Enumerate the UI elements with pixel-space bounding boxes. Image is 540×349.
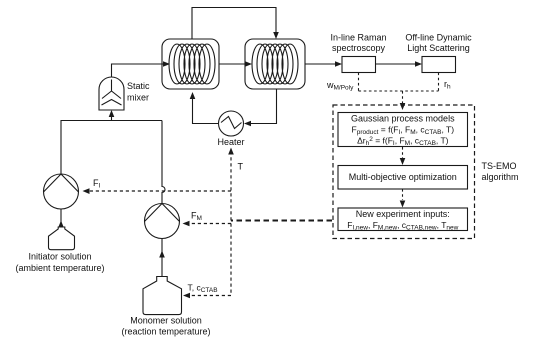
wire top bridge coil1 to coil2 [192, 8, 276, 40]
wire Raman to DLS [376, 63, 422, 65]
svg-text:(reaction temperature): (reaction temperature) [121, 327, 210, 337]
svg-text:algorithm: algorithm [482, 172, 519, 182]
feedback heavy dashed from NEI box [231, 220, 332, 222]
heater [219, 111, 244, 136]
coil reactor 1 [162, 39, 219, 89]
pump P2 [145, 204, 180, 239]
monomer vessel [143, 277, 182, 315]
wire mixer to coil1 [112, 64, 164, 77]
arrow into MO box [400, 158, 406, 165]
wire initiator vessel to pump1 [60, 209, 62, 227]
New experiment inputs box [338, 208, 468, 231]
feedback dashed to pump1 [89, 190, 231, 192]
svg-text:Heater: Heater [217, 137, 244, 147]
svg-text:Multi-objective optimization: Multi-objective optimization [349, 172, 457, 182]
dashed measurement drops [359, 73, 439, 104]
wire heater to coil1 bottom [193, 94, 219, 124]
arrow vessel1 to pump1 [58, 221, 64, 228]
wire pump2 up with hop [162, 121, 165, 204]
svg-text:spectroscopy: spectroscopy [332, 43, 386, 53]
wire coil2 bottom to heater [245, 89, 277, 124]
coil reactor 2 [245, 39, 305, 89]
wire junction to mixer [111, 112, 113, 121]
svg-text:(ambient temperature): (ambient temperature) [15, 263, 104, 273]
static mixer [99, 77, 124, 110]
svg-text:New experiment inputs:: New experiment inputs: [356, 209, 450, 219]
arrow into TS-EMO box [400, 103, 406, 110]
Multi-objective optimization box [338, 166, 468, 190]
arrow into heater right [244, 121, 251, 127]
feedback dashed to pump2 [189, 223, 231, 225]
initiator vessel [49, 227, 75, 250]
arrow into coil2 left [245, 61, 252, 67]
arrow into mixer bottom [109, 110, 115, 117]
svg-text:Initiator solution: Initiator solution [28, 252, 91, 262]
dashed arrow GP to MO [402, 147, 404, 158]
svg-text:Monomer solution: Monomer solution [130, 316, 202, 326]
Raman box [342, 57, 376, 73]
dashed arrow MO to NEI [402, 189, 404, 200]
arrow into Raman [335, 61, 342, 67]
wire coil1 to coil2 [219, 63, 245, 65]
arrow into NEI box [400, 201, 406, 208]
svg-text:Off-line Dynamic: Off-line Dynamic [405, 33, 472, 43]
DLS box [422, 57, 456, 73]
feedback dashed down and to monomer vessel [190, 224, 232, 296]
TS-EMO outer dashed box [333, 105, 475, 239]
pump P1 [44, 174, 79, 209]
svg-text:Gaussian process models: Gaussian process models [351, 114, 455, 124]
arrow up to heater (T) [228, 148, 234, 155]
arrow into pump2 (F_M) [183, 221, 190, 227]
arrow into monomer vessel [183, 293, 190, 299]
arrow into coil1 left [163, 61, 170, 67]
arrow into coil1 bottom [190, 92, 196, 99]
svg-text:TS-EMO: TS-EMO [482, 161, 517, 171]
arrowheads [58, 32, 422, 298]
wire coil2 to Raman [305, 63, 341, 65]
arrow into coil2 top [273, 32, 279, 39]
svg-text:T: T [238, 162, 244, 172]
svg-text:Static: Static [127, 81, 150, 91]
feedback dashed vertical to heater [230, 154, 232, 221]
arrow into pump1 (F_I) [83, 188, 90, 194]
arrow into DLS [415, 61, 422, 67]
wire pump1 to junction [61, 121, 162, 175]
arrow vessel2 to pump2 [159, 251, 165, 258]
svg-text:Light Scattering: Light Scattering [407, 43, 470, 53]
svg-text:mixer: mixer [127, 93, 149, 103]
Gaussian process models box [338, 113, 468, 147]
svg-text:In-line Raman: In-line Raman [330, 33, 386, 43]
wire monomer vessel to pump2 [161, 239, 163, 277]
